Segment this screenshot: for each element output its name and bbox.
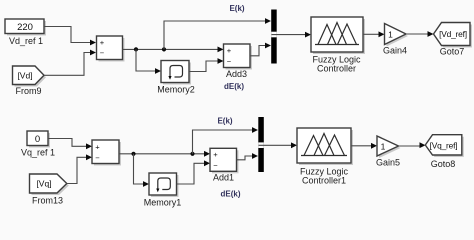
svg-text:From13: From13: [32, 196, 63, 206]
svg-text:dE(k): dE(k): [221, 190, 241, 199]
wire sum to Add3 (E(k) line): [123, 47, 224, 53]
svg-text:Goto8: Goto8: [431, 159, 456, 169]
wire constant0 to sum: [48, 139, 92, 150]
constant block Vq_ref 1 (value 0): [21, 131, 55, 158]
svg-text:[Vq]: [Vq]: [36, 179, 51, 189]
svg-text:Add3: Add3: [226, 69, 247, 79]
memory block Memory1: [144, 173, 182, 208]
fuzzy logic controller block (bottom row): [297, 128, 353, 186]
svg-text:dE(k): dE(k): [224, 82, 244, 91]
svg-text:1: 1: [381, 141, 386, 151]
svg-text:220: 220: [17, 22, 33, 33]
wire From13 to sum: [67, 154, 92, 183]
wire fuzzy1 to Gain5: [351, 143, 377, 149]
svg-text:Gain4: Gain4: [383, 46, 407, 56]
svg-text:−: −: [227, 57, 232, 66]
svg-text:E(k): E(k): [229, 4, 244, 13]
svg-text:Vq_ref 1: Vq_ref 1: [21, 148, 55, 158]
wire Gain4 to Goto7: [406, 31, 434, 37]
svg-text:Goto7: Goto7: [440, 47, 465, 57]
constant block Vd_ref 1 (value 220): [5, 19, 46, 46]
sum block (bottom row): [92, 140, 121, 166]
svg-text:+: +: [95, 142, 100, 151]
wire mux to Fuzzy Logic Controller1: [259, 142, 297, 148]
svg-text:+: +: [227, 46, 232, 55]
svg-text:1: 1: [388, 29, 393, 39]
adder block Add3: [224, 44, 253, 79]
svg-text:Controller: Controller: [317, 64, 356, 74]
wire mux to Fuzzy Logic Controller: [272, 32, 312, 38]
goto block Goto8 [Vq_ref]: [425, 135, 464, 169]
wire constant220 to sum: [44, 27, 96, 46]
svg-text:[Vd]: [Vd]: [17, 70, 32, 80]
svg-text:+: +: [213, 150, 218, 159]
mux bar (top row): [271, 10, 277, 64]
gain block Gain4 (value 1): [383, 24, 408, 56]
svg-text:+: +: [100, 38, 105, 47]
wire fuzzy to Gain4: [363, 31, 385, 37]
mux bar (bottom row): [258, 117, 264, 172]
wire Gain5 to Goto8: [399, 142, 426, 148]
svg-text:Vd_ref 1: Vd_ref 1: [9, 36, 43, 46]
wire sum to Add1 (E(k) line bottom): [119, 151, 210, 157]
from block From13 [Vq]: [30, 174, 69, 206]
wire Add3 to mux: [250, 43, 271, 56]
svg-text:Add1: Add1: [213, 173, 234, 183]
junction node to E(k) mux wire: [162, 18, 271, 51]
svg-text:[Vd_ref]: [Vd_ref]: [439, 29, 467, 39]
svg-text:−: −: [100, 49, 105, 58]
junction node to Memory1: [131, 152, 149, 187]
svg-text:From9: From9: [15, 86, 41, 96]
junction node to E(k) mux wire (bottom): [190, 127, 258, 156]
svg-text:E(k): E(k): [217, 117, 232, 126]
wire Memory2 to Add3 minus input: [189, 58, 224, 71]
svg-text:0: 0: [35, 134, 40, 145]
wire Add1 to mux: [237, 153, 259, 160]
svg-text:Memory2: Memory2: [157, 85, 195, 95]
svg-text:Gain5: Gain5: [376, 158, 400, 168]
adder block Add1: [210, 148, 239, 182]
from block From9 [Vd]: [13, 66, 47, 96]
wire From9 to sum: [44, 50, 96, 76]
sum block (top row): [97, 36, 125, 62]
memory block Memory2: [157, 61, 195, 95]
wire Memory1 to Add1 minus input: [177, 160, 211, 184]
svg-text:−: −: [95, 154, 100, 163]
svg-text:−: −: [213, 161, 218, 170]
svg-text:[Vq_ref]: [Vq_ref]: [430, 140, 458, 150]
fuzzy logic controller block (top row): [311, 17, 365, 74]
goto block Goto7 [Vd_ref]: [434, 23, 473, 57]
svg-text:Controller1: Controller1: [302, 176, 346, 186]
svg-text:Memory1: Memory1: [144, 198, 182, 208]
gain block Gain5 (value 1): [376, 136, 401, 168]
junction node to Memory2: [134, 47, 161, 74]
